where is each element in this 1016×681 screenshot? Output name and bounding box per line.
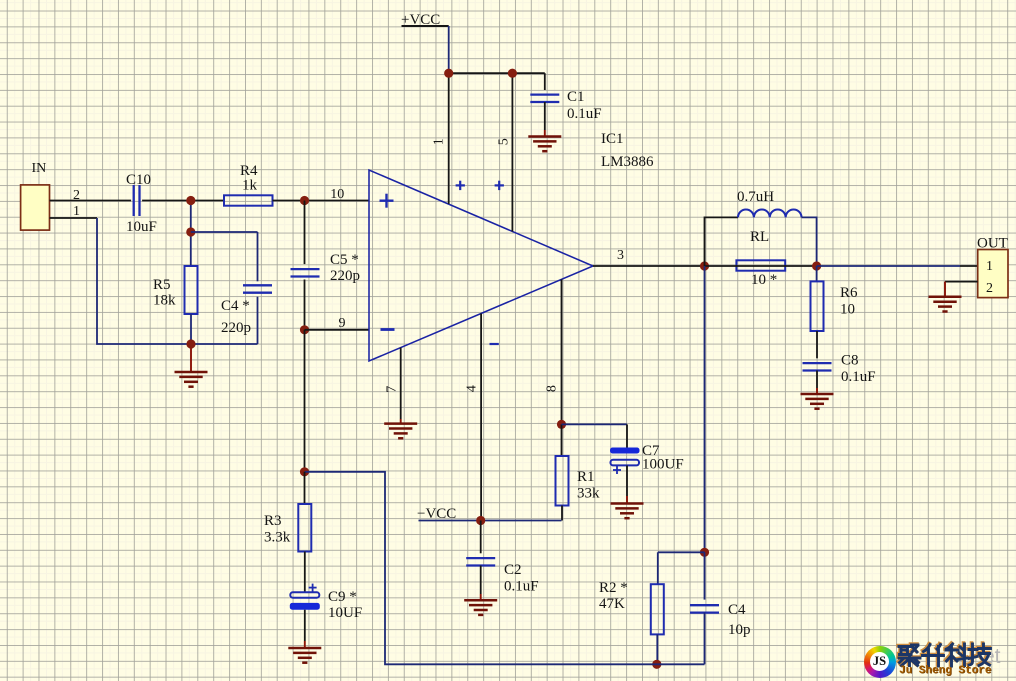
ground below C7 — [611, 496, 644, 518]
wire +VCC drop — [448, 26, 450, 73]
wire pin8 node to C7 — [562, 423, 628, 425]
port IN — [21, 161, 80, 230]
wire C7 top lead — [626, 424, 628, 447]
capacitor C7 electrolytic — [610, 448, 640, 475]
wire to C5 — [304, 201, 306, 265]
wire to R5 — [190, 232, 192, 266]
ground below C8 — [801, 388, 834, 409]
wire IN pin1 — [50, 217, 98, 219]
junction feedback node — [300, 467, 309, 476]
wire C1 to ground — [544, 102, 546, 130]
ground below C2 — [464, 594, 497, 615]
wire R4 to pin10 — [273, 200, 370, 202]
wire R2 top lead — [657, 552, 659, 584]
resistor R2 — [651, 584, 664, 634]
junction pin9 node — [300, 325, 309, 334]
wire C2 to ground — [480, 566, 482, 595]
capacitor C8 — [803, 363, 832, 370]
wire to op-amp inverting input — [305, 329, 370, 331]
wire C2 top lead — [480, 521, 482, 554]
wire R5 to ground node — [190, 314, 192, 344]
op-amp V+ mark pin1 — [456, 181, 465, 190]
op-amp U1 LM3886 triangle — [369, 170, 593, 361]
wire op-amp pin 1 — [448, 73, 450, 204]
wire -VCC rail — [419, 520, 562, 522]
capacitor C4* — [243, 285, 272, 292]
wire op-amp pin 7 — [400, 348, 402, 419]
wire op-amp pin 8 — [561, 279, 563, 424]
op-amp minus input mark — [381, 328, 395, 331]
junction R2 bottom — [652, 660, 661, 669]
ground below R5 — [175, 344, 208, 387]
wire +VCC rail — [449, 72, 545, 74]
wire inductor left leg — [705, 217, 739, 266]
junction +VCC pin5 — [508, 69, 517, 78]
wire junction to C4 node — [190, 201, 192, 233]
op-amp V- mark pin4 — [490, 343, 499, 345]
wire inductor right leg — [802, 217, 817, 266]
wire OUT pin1 — [960, 265, 978, 267]
wire op-amp pin 4 — [480, 314, 482, 521]
wire R6 to C8 — [816, 331, 818, 358]
capacitor C9 electrolytic — [290, 584, 320, 610]
wire R2 bottom lead — [656, 634, 658, 664]
ground below C1 — [528, 130, 561, 151]
wire to C1 — [544, 73, 546, 90]
op-amp V+ mark pin5 — [495, 181, 504, 190]
resistor R1 — [556, 456, 569, 506]
wire to R6 — [816, 266, 818, 281]
ground below C9 — [288, 641, 321, 663]
op-amp plus input mark — [380, 194, 394, 208]
capacitor C1 — [530, 95, 559, 102]
capacitor C5* — [291, 269, 320, 276]
wire C4 bottom lead — [704, 613, 706, 665]
wire C10 to R4 — [142, 200, 224, 202]
wire R3 to C9 — [304, 552, 306, 593]
wire IN pin2 to C10 — [50, 200, 132, 202]
wire to R3 — [304, 472, 306, 504]
resistor R3 — [298, 504, 311, 552]
junction R5/C4 — [186, 227, 195, 236]
junction -VCC C2 — [476, 516, 485, 525]
junction output left — [700, 261, 709, 270]
wire output down — [704, 266, 706, 552]
wire feedback rail — [305, 472, 705, 665]
capacitor C4 10p — [690, 605, 719, 612]
resistor R5 — [185, 266, 198, 314]
capacitor C2 — [466, 558, 495, 565]
wire to R1 — [561, 424, 563, 456]
logo JS ring — [864, 646, 896, 678]
wire through RL — [705, 265, 817, 267]
wire R1 to -VCC — [561, 506, 563, 521]
junction output right — [812, 261, 821, 270]
junction R4 out — [300, 196, 309, 205]
wire C4 top lead — [704, 552, 706, 599]
watermark — [983, 645, 1001, 669]
logo subtitle — [899, 665, 991, 677]
capacitor C10 — [134, 185, 140, 216]
wire C4 top lead — [257, 232, 259, 281]
port OUT — [977, 236, 1008, 298]
resistor R4 — [224, 195, 273, 205]
inductor 0.7uH — [738, 210, 802, 218]
power +VCC — [401, 12, 449, 28]
wire pin3 output — [593, 265, 705, 267]
wire C4 bottom lead — [257, 297, 259, 344]
junction +VCC pin1 — [444, 69, 453, 78]
junction C10/R4/R5 — [186, 196, 195, 205]
wire C7 to ground — [626, 466, 628, 497]
wire C5 to pin9 node — [304, 280, 306, 330]
wire C8 to ground — [816, 371, 818, 389]
wire to R2 top — [658, 551, 705, 553]
junction ground node — [186, 339, 195, 348]
wire op-amp pin 5 — [511, 73, 513, 231]
wire pin1 to ground net — [97, 218, 258, 344]
wire to OUT — [817, 265, 960, 267]
resistor RL — [736, 260, 785, 270]
ground pin 7 — [384, 419, 417, 438]
wire to C4 — [191, 231, 258, 233]
junction R2/C4 top — [700, 548, 709, 557]
wire C9 to ground — [304, 610, 306, 641]
resistor R6 — [811, 281, 824, 331]
ground OUT pin2 — [929, 282, 962, 312]
wire OUT pin2 — [945, 281, 978, 283]
wire pin9 node down — [304, 330, 306, 472]
junction pin8 node — [557, 420, 566, 429]
